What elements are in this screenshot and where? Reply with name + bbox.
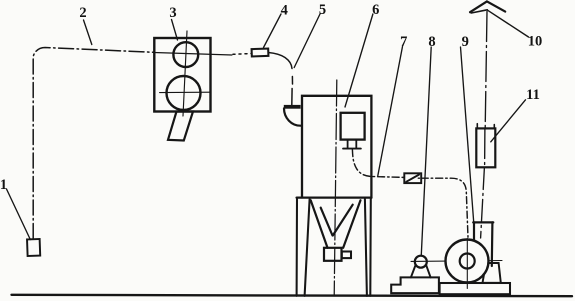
leader line 11 <box>491 100 526 142</box>
pipe drop solid segment <box>291 89 293 106</box>
leader line 8 <box>421 47 431 255</box>
machine 3 top roll circle <box>173 42 198 67</box>
suction pipe from valve to fan inlet <box>418 178 468 237</box>
motor-fan shaft centerline <box>411 260 502 263</box>
motor 8 circle <box>415 256 427 268</box>
exhaust duct centerline through muffler <box>484 129 486 168</box>
leader line 6 <box>345 14 373 107</box>
ground line <box>12 295 573 296</box>
hopper outer V <box>311 200 361 248</box>
collector inlet flange <box>284 105 301 109</box>
machine 3 body <box>154 38 210 112</box>
machine 3 vertical centerline <box>183 31 187 116</box>
fan vertical centerline <box>466 239 468 289</box>
muffler flange ticks <box>477 124 494 129</box>
leader line 10 <box>488 10 529 37</box>
dust collector left inner leg <box>305 199 310 296</box>
leader line 5 <box>294 14 320 68</box>
discharge side stub <box>342 252 351 259</box>
fan scroll circle <box>446 240 489 283</box>
motor pedestal <box>391 277 439 293</box>
machine 3 discharge chute <box>168 112 193 141</box>
leader line 1 <box>7 189 31 240</box>
svg-text:11: 11 <box>526 87 540 103</box>
rain cap 10 roof <box>470 1 505 12</box>
collector inlet elbow bowl <box>284 108 301 125</box>
dash-dot link from machine 3 to component 4 <box>233 53 252 56</box>
inline component 4 (small rectangle on the pneumatic line) <box>252 49 269 57</box>
machine 3 bottom roll circle <box>167 76 201 110</box>
filter unit base bar <box>343 148 361 150</box>
fan outlet duct right wall <box>491 222 494 266</box>
svg-text:10: 10 <box>528 34 543 50</box>
conveying pipeline 2 (dash-dot run from square up and across to machine 3) <box>33 48 154 239</box>
rotary discharge valve box <box>324 248 342 261</box>
svg-text:9: 9 <box>462 34 469 50</box>
fan base plate <box>440 283 510 294</box>
dust collector 6 main box <box>297 96 372 198</box>
leader line 3 <box>172 20 178 41</box>
exhaust duct centerline up to cap <box>485 12 487 129</box>
leader line 2 <box>84 20 92 45</box>
svg-text:4: 4 <box>281 3 288 19</box>
damper valve on suction pipe <box>404 173 421 183</box>
motor 8 mount <box>411 264 431 277</box>
svg-text:3: 3 <box>169 5 176 21</box>
fan 9 support pedestal <box>483 263 501 283</box>
fan hub circle <box>460 254 475 269</box>
collector centerline <box>334 80 337 296</box>
svg-text:5: 5 <box>319 2 326 18</box>
machine 3 bottom roll centerline <box>160 91 211 93</box>
svg-text:7: 7 <box>400 34 407 50</box>
svg-text:1: 1 <box>0 177 7 193</box>
dust collector left leg <box>296 198 298 296</box>
suction pipe 7 from filter to valve <box>352 150 403 178</box>
filter unit pins <box>348 140 357 148</box>
fan outlet duct left wall <box>473 222 475 239</box>
dust collector right inner leg <box>365 199 367 296</box>
feed inlet square 1 <box>27 239 40 256</box>
dust collector right leg <box>369 198 372 296</box>
hopper inner V <box>321 205 353 236</box>
svg-text:2: 2 <box>79 5 86 21</box>
filter unit box inside collector <box>341 113 365 140</box>
svg-text:6: 6 <box>372 2 379 18</box>
fan outlet duct top edge <box>473 221 493 223</box>
machine 3 top roll centerline <box>154 53 232 56</box>
muffler 11 box <box>476 128 495 167</box>
leader line 9 <box>461 47 474 222</box>
leader line 4 <box>264 14 282 48</box>
pipe drop dash segment <box>291 77 293 85</box>
pipe bend 5 down to collector inlet <box>268 53 292 69</box>
rain cap inner line <box>471 10 487 13</box>
exhaust duct centerline muffler to fan <box>481 168 485 239</box>
svg-text:8: 8 <box>428 34 435 50</box>
leader line 7 <box>378 47 403 176</box>
